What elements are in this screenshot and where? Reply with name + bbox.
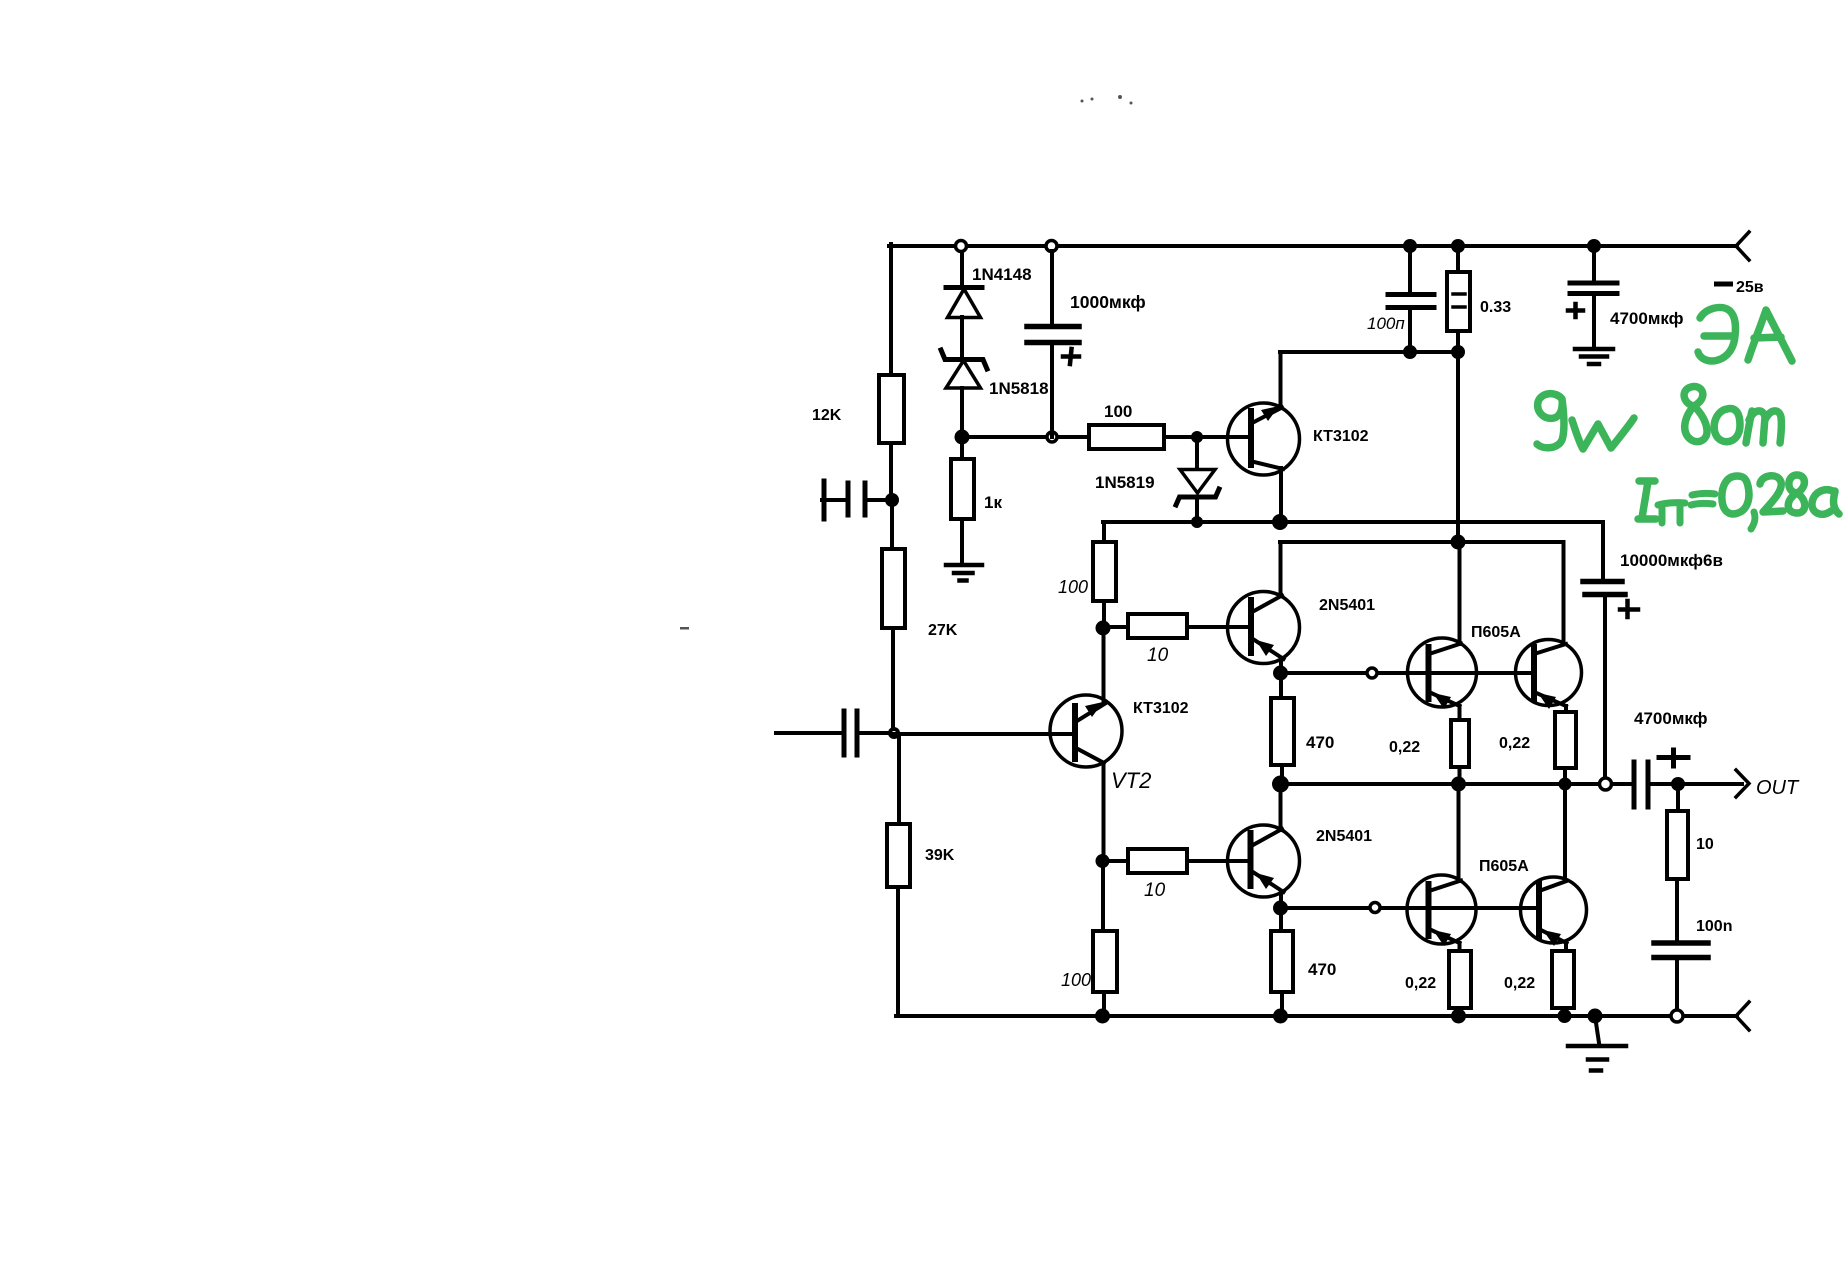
svg-text:4700мкф: 4700мкф bbox=[1610, 309, 1684, 328]
wire vertical from 0.33 down through line A to line B bbox=[1456, 352, 1460, 542]
svg-text:10: 10 bbox=[1144, 880, 1166, 901]
capacitor C 100p bbox=[1408, 246, 1412, 293]
svg-text:КТ3102: КТ3102 bbox=[1313, 428, 1369, 445]
node A junction bbox=[885, 493, 899, 507]
resistor R 12K bbox=[879, 375, 904, 443]
handwriting green: I of In=0,28a bbox=[1638, 481, 1656, 519]
junction bottom rail / 470 bbox=[1273, 1009, 1288, 1024]
svg-text:1000мкф: 1000мкф bbox=[1070, 292, 1146, 312]
resistor R 10 (lower driver base) bbox=[1102, 859, 1128, 863]
junction rail/4700uF bbox=[1587, 239, 1601, 253]
wire 1k from node C bbox=[960, 437, 964, 459]
junction OUT/10 resistor bbox=[1671, 777, 1685, 791]
junction lower driver emitter node bbox=[1273, 901, 1288, 916]
wire base row to P605A pair (upper) bbox=[1280, 671, 1534, 675]
wire line B (y542) bbox=[1280, 540, 1563, 544]
handwriting green: a of In=0,28a bbox=[1812, 490, 1839, 514]
wire 2N5401 lower emitter down bbox=[1279, 892, 1283, 908]
transistor Q 2N5401 (upper driver) bbox=[1228, 592, 1300, 664]
svg-text:25в: 25в bbox=[1736, 279, 1764, 296]
svg-text:0,22: 0,22 bbox=[1499, 735, 1530, 752]
junction bottom rail / 0,22 lower right bbox=[1558, 1009, 1572, 1023]
svg-text:0,22: 0,22 bbox=[1389, 739, 1420, 756]
resistor R 470 (upper) bbox=[1279, 673, 1283, 698]
resistor R 100 (VT2 collector load) bbox=[1102, 522, 1106, 542]
svg-text:VT2: VT2 bbox=[1111, 768, 1151, 793]
transistor Q 2N5401 (lower driver) bbox=[1228, 825, 1300, 897]
svg-text:КТ3102: КТ3102 bbox=[1133, 700, 1189, 717]
diode D 1N5819 bbox=[1195, 437, 1199, 469]
capacitor C input upper with terminal bbox=[822, 481, 892, 519]
junction VT2 emitter node bbox=[1096, 854, 1110, 868]
wire P605A-1 collector up to line B bbox=[1458, 542, 1462, 644]
resistor R 100 (bias, horizontal) bbox=[1089, 425, 1164, 449]
resistor R 100 (VT2 emitter) bbox=[1101, 861, 1105, 931]
svg-text:2N5401: 2N5401 bbox=[1316, 828, 1372, 845]
resistor R 27K bbox=[882, 549, 905, 628]
wire input node to VT2 base bbox=[894, 732, 1075, 736]
resistor R 10 (upper driver base) bbox=[1103, 625, 1128, 629]
transistor Q P605A (upper right) bbox=[1516, 640, 1582, 706]
junction OUT/P605A-1 emitter column bbox=[1451, 777, 1466, 792]
polarity + of 10000uF bbox=[1620, 601, 1638, 617]
junction bottom rail / ground tap bbox=[1588, 1009, 1603, 1024]
capacitor C 100n bbox=[1654, 940, 1708, 946]
svg-text:27K: 27K bbox=[928, 622, 958, 639]
ground symbol bottom right bbox=[1595, 1016, 1599, 1043]
wire P605A-4 collector up to OUT rail bbox=[1563, 784, 1567, 881]
capacitor C 4700uF (output) bbox=[1632, 762, 1637, 807]
svg-text:П605А: П605А bbox=[1471, 624, 1521, 641]
svg-text:470: 470 bbox=[1306, 733, 1334, 752]
wire node C to 100 resistor (horizontal bias row) bbox=[962, 435, 1089, 439]
junction 0.33 bottom bbox=[1451, 345, 1465, 359]
svg-text:100n: 100n bbox=[1696, 918, 1732, 935]
diode D 1N4148 bbox=[946, 285, 982, 290]
junction line B / vertical bbox=[1451, 535, 1466, 550]
wire rail to 1N4148 bbox=[960, 252, 964, 287]
resistor R 0,22 (lower right) bbox=[1564, 943, 1568, 951]
wire 2N5401 lower collector to OUT rail bbox=[1279, 784, 1283, 830]
handwriting green: letter E of EA bbox=[1698, 307, 1735, 361]
capacitor C 4700uF (supply) bbox=[1592, 246, 1596, 281]
wire node B to 39K bbox=[897, 734, 901, 824]
bottom rail arrowhead bbox=[1736, 1002, 1749, 1030]
svg-text:1N5819: 1N5819 bbox=[1095, 473, 1155, 492]
resistor R 10 (output zobel) bbox=[1676, 784, 1680, 811]
wire P605A-2 collector up to line B corner bbox=[1562, 542, 1566, 644]
handwriting green: 0 of In=0,28a bbox=[1722, 476, 1749, 514]
node B junction (open ring) bbox=[888, 727, 900, 739]
resistor R 470 (lower) bbox=[1279, 908, 1283, 931]
svg-text:100: 100 bbox=[1058, 577, 1088, 597]
diode D 1N5818 (schottky) bbox=[941, 350, 987, 369]
junction rail/0.33 bbox=[1451, 239, 1465, 253]
handwriting green: 8 of 8om bbox=[1684, 387, 1707, 442]
resistor R 0,22 (upper left) bbox=[1458, 706, 1462, 720]
wire 1k to ground bbox=[960, 519, 964, 564]
wire VT2 emitter down bbox=[1102, 763, 1106, 861]
wire VT2 collector bbox=[1102, 628, 1106, 703]
wire KT3102 emitter down to line A bbox=[1279, 468, 1283, 522]
junction OUT/470 and lower collector bbox=[1272, 776, 1289, 793]
svg-text:0.33: 0.33 bbox=[1480, 299, 1511, 316]
resistor R 0,22 (upper right) bbox=[1564, 706, 1568, 712]
speck mark mid-left bbox=[680, 627, 689, 630]
wire base row to P605A pair (lower) bbox=[1280, 906, 1539, 910]
svg-text:100: 100 bbox=[1061, 970, 1091, 990]
junction 1N5819 bottom on line A bbox=[1191, 516, 1203, 528]
transistor Q P605A (lower left) bbox=[1407, 875, 1476, 944]
junction OUT/P605A-2 emitter column bbox=[1559, 778, 1572, 791]
handwriting green: letter A of EA bbox=[1748, 310, 1792, 361]
wire 27K to input node B bbox=[891, 628, 895, 733]
svg-text:10: 10 bbox=[1147, 645, 1169, 666]
junction KT3102 emitter on line A bbox=[1272, 514, 1288, 530]
wire 1N5818 to node C bbox=[960, 388, 964, 437]
ground symbol under 4700uF bbox=[1575, 349, 1613, 364]
wire 100 to KT3102 base bbox=[1164, 435, 1251, 439]
polarity + of 1000uF bbox=[1063, 349, 1079, 364]
handwriting green: 9 of 9w bbox=[1537, 394, 1564, 448]
svg-text:4700мкф: 4700мкф bbox=[1634, 709, 1708, 728]
svg-text:12K: 12K bbox=[812, 407, 842, 424]
wire top supply rail -25V bbox=[889, 244, 1737, 248]
node: 1000uF tap (open circle) bbox=[1047, 432, 1057, 442]
node D junction at 1N5819 top bbox=[1191, 431, 1203, 443]
handwriting green: = of In=0,28a bbox=[1691, 493, 1715, 505]
capacitor C 10000uF6v bbox=[1601, 522, 1605, 579]
resistor R 0.33 bbox=[1456, 246, 1460, 272]
node: open circle on lower base row bbox=[1370, 903, 1380, 913]
polarity + of 4700uF supply bbox=[1568, 304, 1583, 317]
capacitor C input lower bbox=[776, 711, 894, 755]
svg-text:39K: 39K bbox=[925, 847, 955, 864]
capacitor C 1000uF bbox=[1050, 251, 1054, 325]
svg-text:0,22: 0,22 bbox=[1405, 975, 1436, 992]
wire KT3102 collector up to line y352 bbox=[1279, 352, 1283, 408]
transistor Q KT3102 (top, bias) bbox=[1228, 403, 1300, 475]
wire 2N5401 emitter down bbox=[1279, 659, 1283, 673]
wire 39K to bottom rail corner bbox=[896, 887, 1737, 1016]
wire line y352 (collector row) bbox=[1280, 350, 1458, 354]
wire 12K to input node A bbox=[889, 443, 893, 500]
svg-text:OUT: OUT bbox=[1756, 777, 1800, 799]
svg-text:470: 470 bbox=[1308, 960, 1336, 979]
resistor R 0,22 (lower left) bbox=[1458, 943, 1462, 951]
wire node A to 27K bbox=[890, 500, 894, 549]
speck marks top bbox=[1081, 100, 1084, 103]
node C junction bbox=[955, 430, 970, 445]
polarity + of output 4700uF bbox=[1659, 750, 1688, 766]
svg-text:10: 10 bbox=[1696, 836, 1714, 853]
junction rail/100p bbox=[1403, 239, 1417, 253]
handwriting green: m of 8om bbox=[1746, 411, 1781, 443]
svg-text:100: 100 bbox=[1104, 402, 1132, 421]
junction bottom rail / 0,22 lower left bbox=[1451, 1009, 1466, 1024]
svg-text:10000мкф6в: 10000мкф6в bbox=[1620, 551, 1723, 570]
svg-text:1N4148: 1N4148 bbox=[972, 265, 1032, 284]
wire line A (y522) bbox=[1103, 520, 1603, 524]
junction upper driver emitter node bbox=[1273, 666, 1288, 681]
transistor Q VT2 KT3102 bbox=[1050, 695, 1122, 767]
resistor R 39K bbox=[887, 824, 910, 887]
svg-text:0,22: 0,22 bbox=[1504, 975, 1535, 992]
handwriting green: comma of In=0,28a bbox=[1751, 512, 1755, 529]
node: 100n to bottom rail (open circle) bbox=[1671, 1010, 1683, 1022]
svg-text:100п: 100п bbox=[1367, 314, 1405, 333]
OUT arrowhead bbox=[1736, 770, 1749, 797]
node: rail tap for 1000uF (open circle) bbox=[1046, 241, 1057, 252]
ground symbol under 1k bbox=[946, 565, 982, 581]
node: rail tap for diode chain (open circle) bbox=[956, 241, 967, 252]
junction 100p bottom bbox=[1403, 345, 1417, 359]
resistor R 1k bbox=[951, 459, 974, 519]
wire 2N5401 collector up to line B corner bbox=[1279, 542, 1283, 596]
svg-text:П605А: П605А bbox=[1479, 858, 1529, 875]
wire left drop from rail to 12K bbox=[889, 244, 893, 375]
handwriting green: w of 9w bbox=[1572, 418, 1634, 449]
handwriting green: 2 of In=0,28a bbox=[1760, 476, 1783, 512]
transistor Q P605A (upper left) bbox=[1408, 638, 1477, 707]
wire OUT rail bbox=[1280, 782, 1633, 786]
wire P605A-3 collector up to OUT rail bbox=[1457, 784, 1461, 881]
handwriting green: n of In=0,28a bbox=[1658, 503, 1685, 523]
handwriting green: o of 8om bbox=[1714, 409, 1740, 442]
wire 1N4148 to 1N5818 bbox=[960, 317, 964, 359]
transistor Q P605A (lower right) bbox=[1521, 877, 1587, 943]
node: 10000uF tap on OUT (open circle) bbox=[1600, 778, 1612, 790]
svg-text:2N5401: 2N5401 bbox=[1319, 597, 1375, 614]
svg-text:1N5818: 1N5818 bbox=[989, 379, 1049, 398]
junction VT2 collector node bbox=[1096, 621, 1111, 636]
svg-text:1к: 1к bbox=[984, 493, 1002, 512]
junction bottom rail / 100 bbox=[1095, 1009, 1110, 1024]
label -25v bbox=[1714, 282, 1733, 287]
handwriting green: 8 of In=0,28a bbox=[1788, 475, 1805, 513]
node: open circle on upper base row bbox=[1367, 668, 1377, 678]
